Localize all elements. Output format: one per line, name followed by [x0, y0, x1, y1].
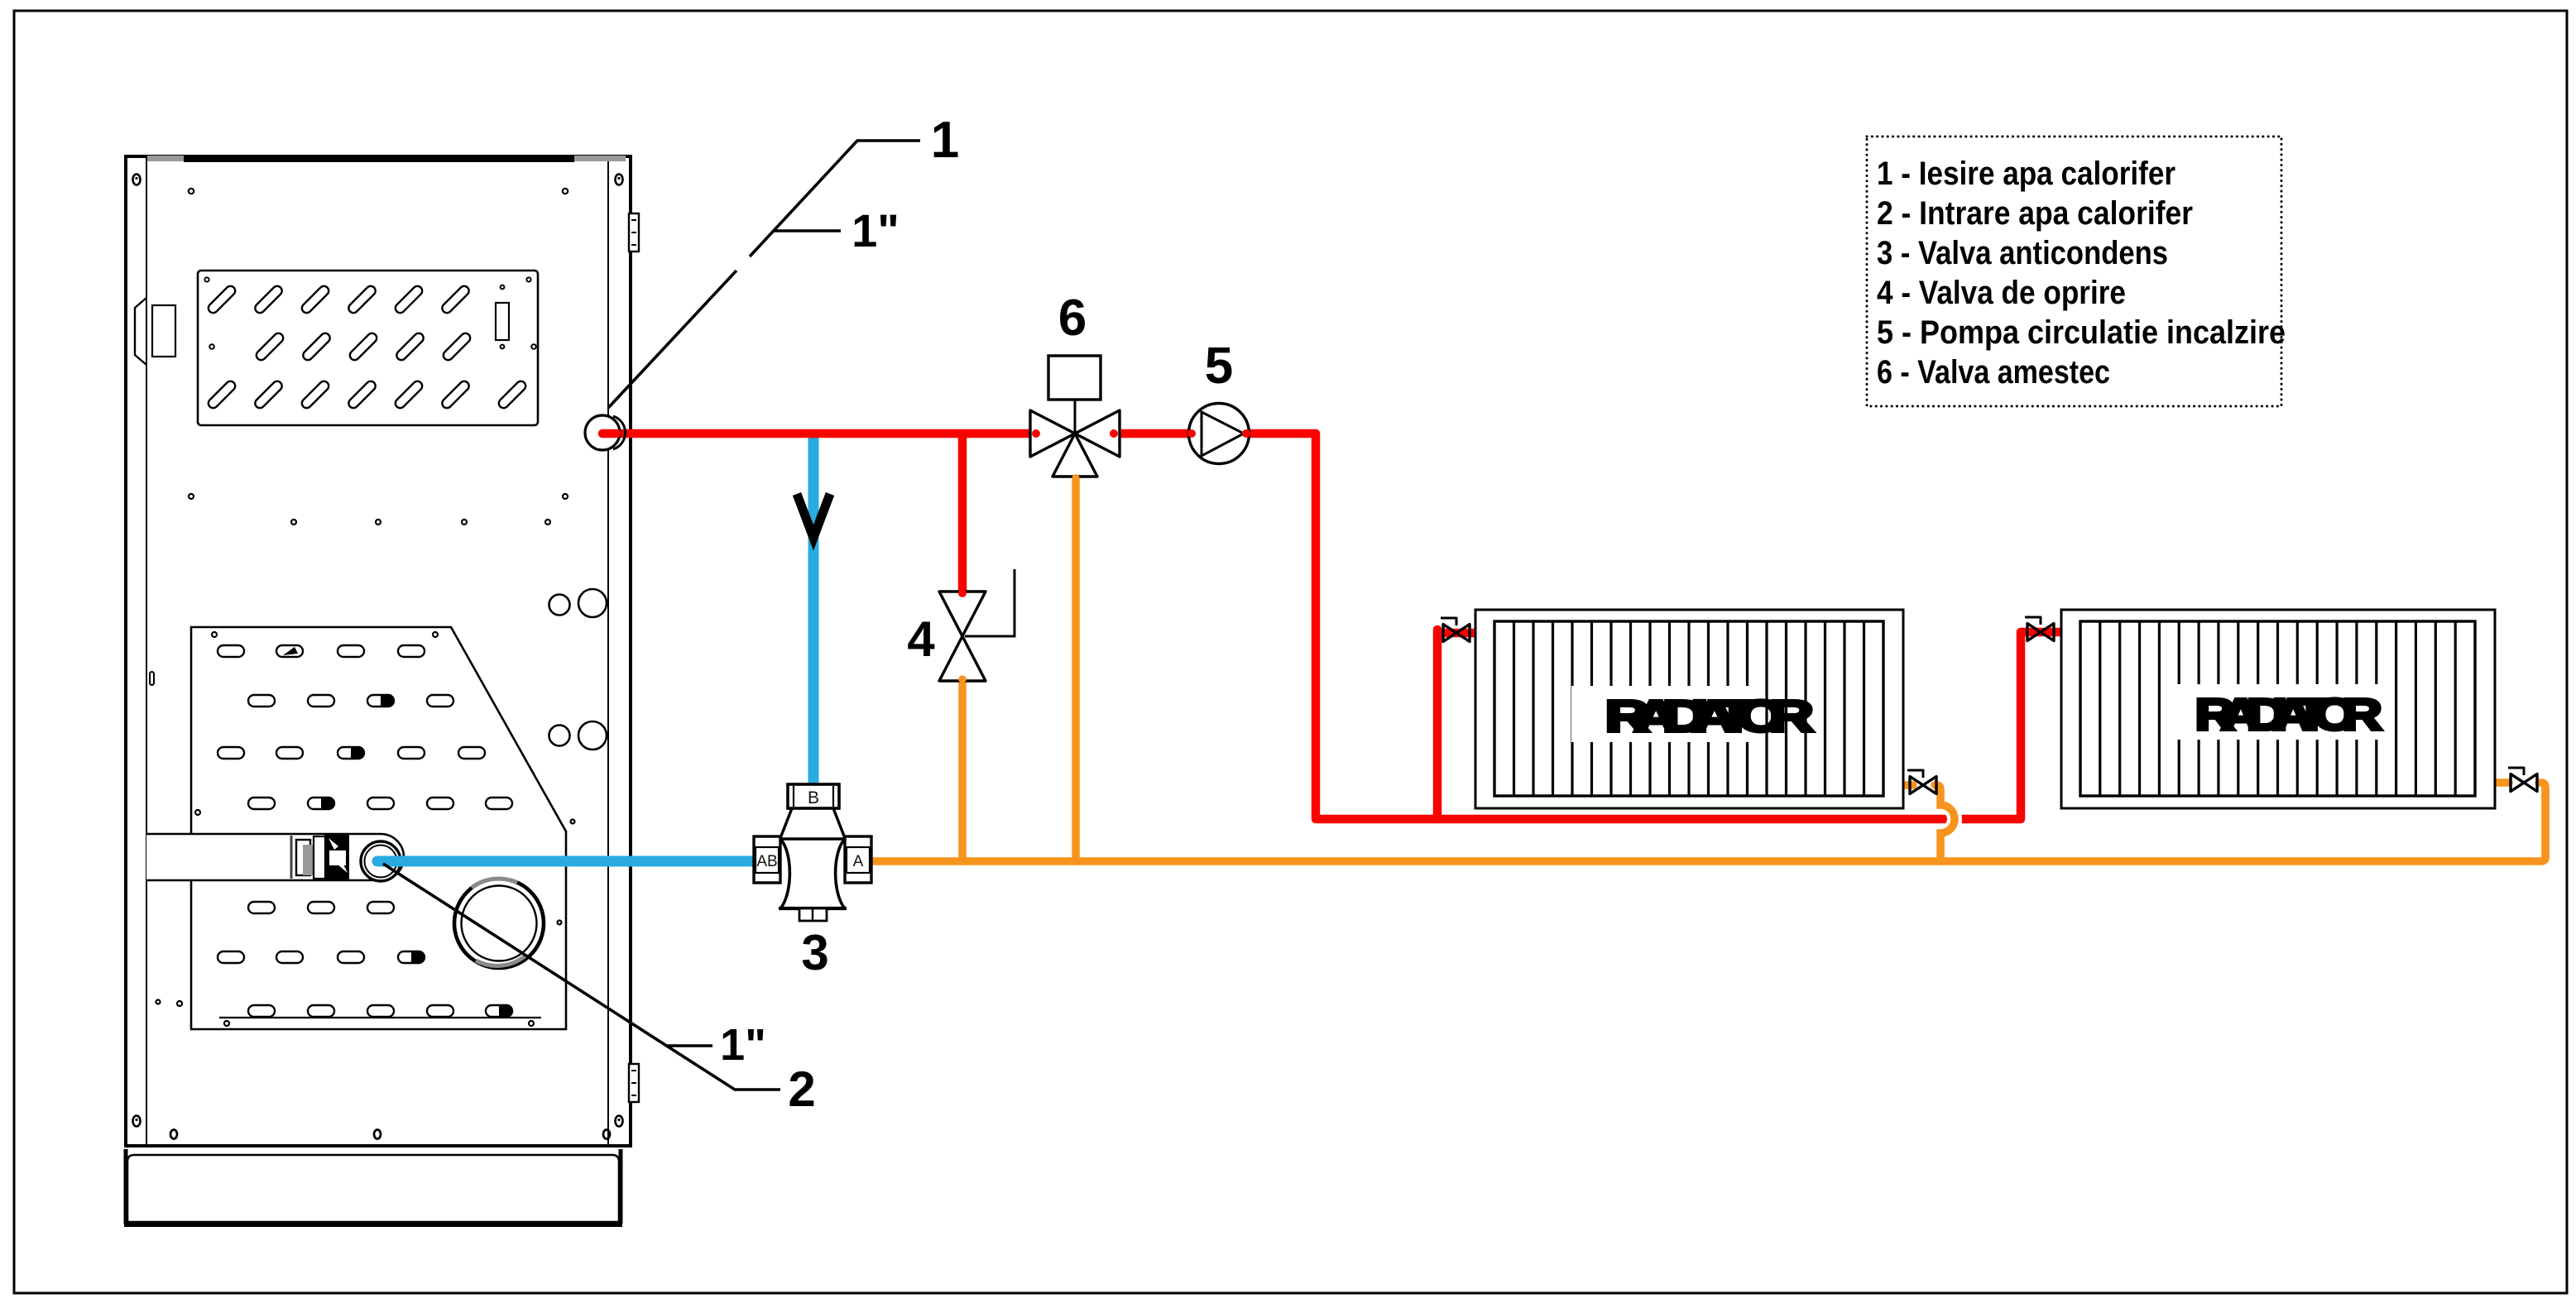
svg-text:5 - Pompa circulatie incalzire: 5 - Pompa circulatie incalzire [1877, 314, 2286, 351]
screw keyhole bottom-left [133, 1116, 141, 1127]
blue flow arrow [797, 494, 830, 538]
wire: blue return inside boiler (vertical with arrow) [808, 436, 819, 788]
svg-text:2: 2 [788, 1061, 815, 1117]
pump 5 triangle [1202, 412, 1244, 456]
wire: blue pipe from boiler inlet to valve 3 AB port [377, 856, 761, 867]
screw keyhole left-mid [150, 672, 154, 685]
circle pair upper (large) [578, 589, 607, 617]
cabinet bottom rail line [127, 1145, 629, 1147]
valve 6 mixing valve: actuator box [1048, 356, 1101, 400]
pump 5 circle [1189, 404, 1250, 464]
flue pipe ring [454, 879, 544, 968]
wire: orange return main line [868, 788, 2545, 861]
valve 4 handle [965, 569, 1015, 636]
boiler water outlet circle (port 1) [585, 415, 620, 450]
circle pair lower (large) [578, 721, 607, 750]
svg-text:RADIATOR: RADIATOR [2195, 690, 2382, 740]
screw keyhole top-left [133, 175, 141, 185]
boiler cabinet inner left edge line [146, 156, 147, 1146]
lower vent panel outline [191, 627, 566, 1029]
wire: red branch down to stop valve 4 [958, 434, 967, 592]
circle pair upper (small) [549, 595, 570, 616]
svg-text:1": 1" [720, 1020, 766, 1070]
valve 6 left triangle [1030, 410, 1075, 457]
svg-text:6: 6 [1058, 290, 1087, 347]
wire: red stub into radiator 1 [1437, 629, 1479, 638]
wire: orange from radiator 2 valve to corner [2539, 783, 2545, 859]
svg-text:4 - Valva de oprire: 4 - Valva de oprire [1877, 275, 2126, 311]
cabinet screw dots [156, 189, 575, 1006]
top vent panel [198, 271, 538, 425]
radiator 2 inner box with fins [2080, 621, 2475, 796]
top vent panel diagonal slots row 3 [206, 379, 527, 410]
radiator 1 outer box [1475, 610, 1903, 808]
wire: red riser to radiator 1 inlet [1433, 630, 1442, 819]
left door handle protrusion [135, 298, 146, 365]
boiler cabinet door edge line (right) [607, 156, 609, 1146]
svg-text:1 - Iesire apa calorifer: 1 - Iesire apa calorifer [1877, 156, 2175, 192]
radiator 1 inner box with fins [1494, 621, 1883, 796]
wire: orange from radiator 1 valve down with crossover hop [1940, 805, 1955, 833]
svg-text:5: 5 [1205, 338, 1233, 395]
lower vent panel slot row 7 [248, 1005, 512, 1017]
radiator 2 label band [2176, 684, 2392, 740]
svg-text:B: B [808, 788, 819, 807]
lower vent panel slot row 2 [248, 695, 453, 707]
svg-text:4: 4 [907, 611, 935, 667]
lower vent panel bottom crease line [219, 1017, 541, 1018]
lower vent panel slot row 3 [218, 747, 485, 759]
svg-text:6 - Valva amestec: 6 - Valva amestec [1877, 354, 2110, 390]
svg-text:1": 1" [851, 204, 899, 256]
left door handle rectangle [152, 305, 175, 357]
svg-text:3: 3 [801, 925, 828, 980]
legend dotted box [1867, 137, 2281, 406]
lower vent panel corner screw dots [195, 632, 562, 1026]
valve 4 stop valve: bowtie [939, 592, 986, 636]
radiator 2 outer box [2061, 610, 2495, 808]
boiler top band gray segment right [574, 156, 626, 161]
door hinge lower [629, 1064, 639, 1102]
leader tick 1 inch (top) [773, 229, 841, 232]
valve 3 anticondens: top flange (port B) [788, 784, 839, 808]
door hinge upper [629, 213, 639, 252]
svg-text:2 - Intrare apa calorifer: 2 - Intrare apa calorifer [1877, 195, 2193, 232]
svg-text:RADIATOR: RADIATOR [1605, 692, 1813, 741]
wire: orange below stop valve 4 [958, 680, 967, 861]
valve 6 right triangle [1075, 410, 1120, 457]
radiator 2 outlet valve [2508, 768, 2537, 792]
valve 3 anticondens: right port A [845, 836, 871, 883]
valve 3 anticondens: bottom stub [799, 908, 827, 921]
valve 6 bottom triangle [1053, 434, 1097, 477]
screw keyhole bottom-right [616, 1116, 623, 1127]
lower vent panel slot row 6 [218, 951, 425, 963]
base top screws [170, 1130, 610, 1139]
boiler base plinth [127, 1155, 619, 1222]
wire: orange below mixing valve 6 [1072, 476, 1080, 861]
radiator 1 label band [1571, 686, 1758, 742]
svg-text:AB: AB [756, 853, 777, 870]
wire: orange stub out of radiator 2 [2494, 779, 2509, 787]
wire: orange stub out of radiator 1 [1902, 781, 1913, 789]
valve 3 anticondens: center body [780, 839, 845, 908]
svg-text:1: 1 [931, 112, 959, 169]
svg-text:3 - Valva anticondens: 3 - Valva anticondens [1877, 235, 2168, 271]
radiator 1 inlet valve [1441, 618, 1470, 642]
boiler top band gray segment left [147, 156, 184, 161]
screw keyhole top-right [616, 175, 623, 185]
boiler top band thick black [184, 155, 574, 162]
leader line for port 1 (top) [608, 141, 920, 408]
wire: red supply main from boiler outlet to mixing valve [598, 429, 1034, 438]
valve 6 stem [1074, 400, 1077, 434]
wire: red stub into radiator 2 [2021, 628, 2062, 637]
boiler cabinet outer body [126, 156, 631, 1146]
valve 3 anticondens: left port AB [754, 836, 780, 883]
leader tick 1 inch (bottom) [667, 1044, 712, 1047]
valve 3 anticondens: neck trapezoid [780, 808, 845, 838]
leader line for port 2 (bottom) [383, 864, 780, 1090]
top vent panel diagonal slots row 2 [254, 331, 472, 362]
lower vent panel slot row 1 [218, 645, 425, 657]
radiator 2 inlet valve [2025, 617, 2054, 641]
circle pair lower (small) [549, 726, 570, 746]
top vent panel small rectangle cutout [496, 303, 509, 340]
svg-text:A: A [853, 853, 864, 870]
boiler water inlet circle (port 2) [361, 841, 401, 881]
top vent panel diagonal slots row 1 [206, 284, 471, 314]
top vent panel dots [204, 277, 535, 348]
water inlet port band [146, 834, 404, 880]
radiator 1 outlet valve [1907, 770, 1936, 794]
lower vent panel slot row 4 [248, 798, 512, 809]
wire: red supply from mixing valve to pump and right riser [1115, 434, 2021, 819]
port fitting hardware [291, 834, 349, 881]
lower vent panel slot row 5 [248, 902, 394, 913]
